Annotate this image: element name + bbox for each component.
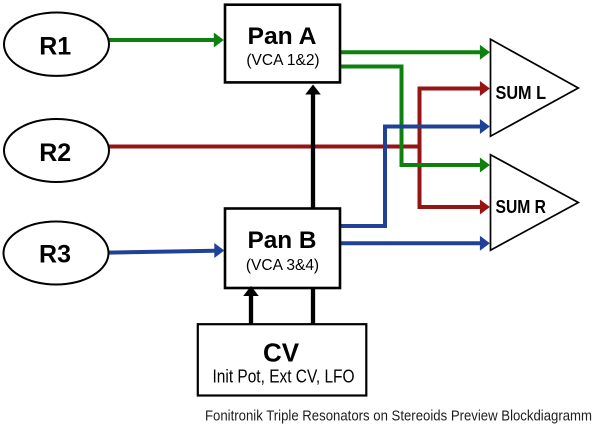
svg-text:R2: R2 [39, 139, 71, 167]
svg-text:SUM L: SUM L [496, 83, 547, 103]
svg-text:(VCA 1&2): (VCA 1&2) [246, 52, 319, 69]
svg-text:SUM R: SUM R [496, 197, 547, 217]
svg-text:Fonitronik Triple Resonators o: Fonitronik Triple Resonators on Stereoid… [205, 408, 592, 425]
svg-text:Pan B: Pan B [248, 227, 317, 254]
svg-text:CV: CV [263, 338, 300, 368]
svg-text:R3: R3 [39, 241, 71, 269]
svg-text:Init Pot, Ext CV, LFO: Init Pot, Ext CV, LFO [213, 367, 355, 387]
svg-text:R1: R1 [39, 33, 71, 61]
svg-text:Pan A: Pan A [248, 23, 317, 50]
svg-text:(VCA 3&4): (VCA 3&4) [246, 257, 319, 274]
